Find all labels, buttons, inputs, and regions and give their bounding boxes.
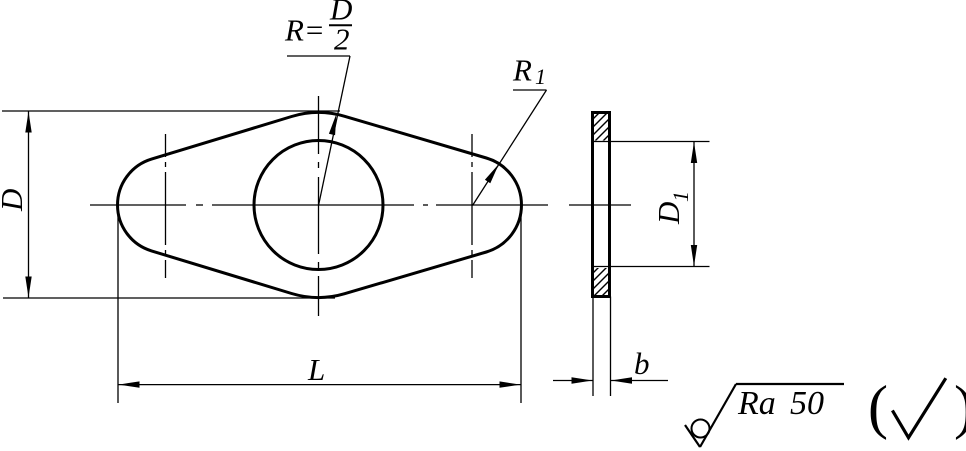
dimension D1 line — [693, 142, 695, 267]
right lobe centerline — [471, 134, 473, 278]
svg-text:(: ( — [868, 374, 888, 440]
R leader underline — [287, 55, 350, 57]
svg-text:50: 50 — [790, 385, 824, 422]
vertical centerline — [318, 96, 320, 316]
dimension b left extension line — [592, 297, 594, 397]
dimension D bottom extension line — [3, 297, 335, 299]
bottom hatch — [584, 250, 616, 322]
R leader line — [319, 56, 351, 206]
svg-text:D: D — [0, 189, 29, 212]
R1 leader arrow — [485, 164, 499, 183]
side view body — [593, 113, 610, 297]
roughness symbol top line — [736, 383, 844, 385]
part outline — [118, 113, 522, 298]
svg-text:R: R — [512, 53, 532, 88]
dimension D bottom arrow — [25, 277, 31, 298]
left lobe centerline — [165, 134, 167, 278]
dimension b right arrow — [611, 377, 632, 383]
check mark — [892, 378, 945, 438]
R1 leader line — [473, 90, 547, 206]
svg-text:L: L — [307, 352, 325, 387]
roughness symbol long leg — [700, 384, 736, 447]
center hole — [254, 141, 383, 270]
dimension D top extension line — [2, 110, 340, 112]
dimension b left arrow — [572, 377, 593, 383]
svg-text:1: 1 — [668, 191, 693, 202]
svg-text:2: 2 — [334, 22, 350, 57]
dimension b right extension line — [610, 297, 612, 397]
svg-text:b: b — [634, 346, 650, 381]
side view hole edge top — [593, 141, 710, 143]
svg-text:): ) — [954, 374, 966, 440]
svg-text:D: D — [651, 202, 686, 225]
R1 leader underline — [513, 89, 547, 91]
side view centerline — [569, 204, 631, 206]
dimension b right line — [611, 380, 669, 382]
roughness symbol circle — [692, 420, 710, 438]
svg-text:R=: R= — [284, 13, 325, 48]
dimension L left arrow — [119, 381, 140, 387]
horizontal centerline — [90, 204, 548, 206]
top hatch — [584, 96, 616, 168]
R leader arrow — [329, 114, 336, 135]
side view hole edge bottom — [593, 266, 710, 268]
svg-text:Ra: Ra — [737, 385, 776, 422]
dimension D line — [28, 111, 30, 298]
dimension D top arrow — [25, 112, 31, 133]
dimension L right extension line — [520, 210, 522, 403]
dimension L left extension line — [117, 210, 119, 403]
dimension D1 top arrow — [691, 142, 697, 163]
dimension L right arrow — [500, 381, 521, 387]
dimension b left line — [553, 380, 593, 382]
svg-text:1: 1 — [535, 64, 546, 89]
dimension D1 bottom arrow — [691, 245, 697, 266]
roughness symbol short leg — [685, 425, 700, 447]
dimension L line — [118, 384, 521, 386]
